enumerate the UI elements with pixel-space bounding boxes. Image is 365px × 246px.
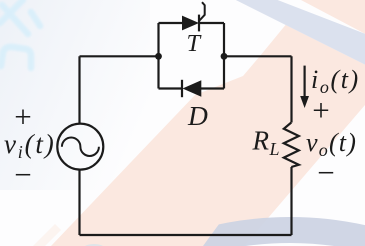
wire right branch vertical of parallel box	[223, 23, 225, 89]
wire diode branch right segment	[201, 87, 224, 89]
wire left vertical lower (source to bottom)	[78, 170, 80, 235]
svg-text:+: +	[312, 93, 329, 128]
node right junction	[221, 53, 228, 60]
ac source vi	[57, 124, 103, 170]
resistor RL	[284, 123, 299, 168]
svg-text:D: D	[187, 100, 208, 131]
wire right vertical lower (resistor to bottom)	[290, 167, 292, 235]
svg-text:−: −	[317, 155, 334, 190]
current arrow io	[300, 66, 309, 108]
wire right vertical upper (to resistor)	[290, 56, 292, 122]
thyristor T	[182, 2, 205, 31]
wire top-right horizontal (right node to load)	[224, 55, 292, 57]
wire top-left horizontal (source to left node)	[80, 55, 159, 57]
wire thyristor branch right segment	[199, 22, 224, 24]
wire left branch vertical of parallel box	[157, 23, 159, 89]
diode D	[182, 80, 201, 97]
wire left vertical upper (node to source)	[78, 56, 80, 123]
svg-text:T: T	[187, 30, 203, 57]
node left junction	[155, 53, 162, 60]
svg-text:−: −	[14, 157, 31, 192]
wire bottom horizontal	[80, 234, 292, 236]
wire thyristor branch left segment	[159, 22, 183, 24]
wire diode branch left segment	[159, 87, 183, 89]
